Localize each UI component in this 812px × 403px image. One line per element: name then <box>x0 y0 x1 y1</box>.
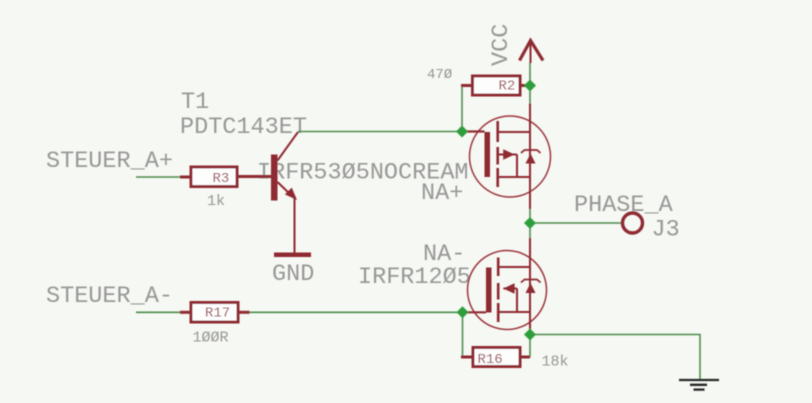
svg-text:STEUER_A+: STEUER_A+ <box>46 148 173 175</box>
svg-text:STEUER_A-: STEUER_A- <box>46 283 173 310</box>
svg-text:J3: J3 <box>652 217 680 244</box>
svg-text:PDTC143ET: PDTC143ET <box>180 114 307 141</box>
svg-text:VCC: VCC <box>488 24 515 66</box>
svg-text:47Ø: 47Ø <box>427 67 452 83</box>
svg-text:IRFR12Ø5: IRFR12Ø5 <box>358 264 471 291</box>
svg-text:R3: R3 <box>213 171 230 187</box>
svg-text:1ØØR: 1ØØR <box>193 330 229 347</box>
svg-text:R2: R2 <box>499 79 516 95</box>
svg-text:18k: 18k <box>542 354 569 371</box>
svg-text:NA+: NA+ <box>421 180 463 207</box>
svg-text:1k: 1k <box>207 193 225 210</box>
svg-text:R16: R16 <box>478 352 503 368</box>
svg-text:GND: GND <box>272 261 314 288</box>
svg-text:PHASE_A: PHASE_A <box>574 192 674 219</box>
svg-text:R17: R17 <box>205 306 230 322</box>
svg-text:T1: T1 <box>181 89 209 116</box>
